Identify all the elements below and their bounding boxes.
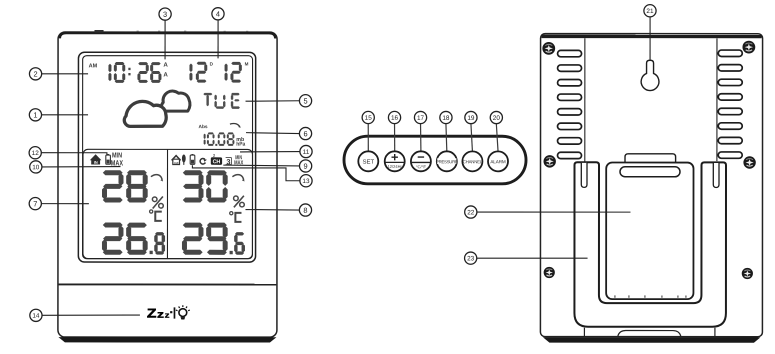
svg-text:4: 4 bbox=[216, 10, 220, 19]
svg-text:Abs: Abs bbox=[199, 124, 208, 130]
svg-text:°C/°F: °C/°F bbox=[416, 164, 427, 169]
svg-text:ALARM: ALARM bbox=[490, 159, 506, 164]
svg-text:10: 10 bbox=[32, 164, 40, 171]
svg-text:21: 21 bbox=[646, 8, 654, 15]
svg-text:17: 17 bbox=[417, 115, 425, 122]
svg-text:A: A bbox=[163, 62, 168, 69]
svg-text:CH: CH bbox=[213, 159, 221, 165]
svg-text:AM: AM bbox=[89, 63, 98, 69]
svg-text:16: 16 bbox=[391, 115, 399, 122]
svg-text:PRESSURE: PRESSURE bbox=[436, 159, 458, 164]
svg-text:out: out bbox=[174, 161, 179, 165]
svg-text:8: 8 bbox=[303, 206, 307, 215]
svg-text:19: 19 bbox=[467, 115, 475, 122]
svg-text:z: z bbox=[165, 311, 170, 320]
svg-text:1: 1 bbox=[33, 111, 37, 120]
svg-text:13: 13 bbox=[302, 178, 310, 185]
svg-text:15: 15 bbox=[365, 115, 373, 122]
svg-text:12: 12 bbox=[32, 150, 40, 157]
svg-text:z: z bbox=[157, 310, 164, 321]
svg-text:12/24Hr: 12/24Hr bbox=[388, 164, 403, 169]
svg-text:5: 5 bbox=[303, 96, 307, 105]
svg-text:hPa: hPa bbox=[236, 142, 246, 148]
svg-text:22: 22 bbox=[467, 209, 475, 216]
svg-text:9: 9 bbox=[304, 162, 308, 171]
svg-text:20: 20 bbox=[493, 115, 501, 122]
svg-text:23: 23 bbox=[467, 255, 475, 262]
svg-text:14: 14 bbox=[32, 313, 40, 320]
svg-text:Z: Z bbox=[147, 305, 157, 320]
svg-text:A: A bbox=[163, 71, 168, 78]
svg-text:IN: IN bbox=[94, 160, 98, 165]
svg-text:2: 2 bbox=[33, 70, 37, 79]
svg-text:M: M bbox=[245, 62, 249, 67]
svg-text:3: 3 bbox=[163, 10, 167, 19]
svg-text:CHANNEL: CHANNEL bbox=[463, 159, 483, 164]
svg-text:SET: SET bbox=[362, 160, 374, 166]
svg-text:2: 2 bbox=[213, 154, 215, 158]
svg-text:11: 11 bbox=[303, 149, 310, 156]
svg-text:7: 7 bbox=[33, 199, 37, 208]
svg-text:6: 6 bbox=[303, 129, 307, 138]
svg-text:18: 18 bbox=[442, 115, 450, 122]
